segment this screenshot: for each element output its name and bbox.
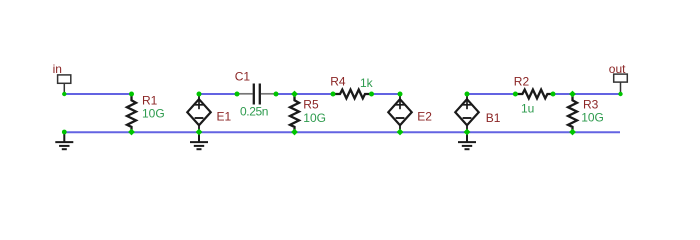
svg-text:E1: E1 xyxy=(217,110,232,124)
svg-text:out: out xyxy=(609,62,626,76)
svg-text:R5: R5 xyxy=(303,98,319,112)
svg-text:10G: 10G xyxy=(581,111,604,125)
svg-text:in: in xyxy=(53,62,62,76)
svg-text:1k: 1k xyxy=(360,76,374,90)
svg-text:R2: R2 xyxy=(514,75,530,89)
svg-text:R4: R4 xyxy=(330,74,346,88)
svg-text:1u: 1u xyxy=(521,102,534,116)
svg-text:R1: R1 xyxy=(142,93,158,107)
svg-text:0.25n: 0.25n xyxy=(240,104,268,118)
svg-text:B1: B1 xyxy=(486,111,501,125)
svg-text:10G: 10G xyxy=(303,111,326,125)
svg-text:E2: E2 xyxy=(417,109,432,123)
svg-text:10G: 10G xyxy=(142,107,165,121)
svg-text:R3: R3 xyxy=(583,98,599,112)
svg-text:C1: C1 xyxy=(235,69,251,83)
